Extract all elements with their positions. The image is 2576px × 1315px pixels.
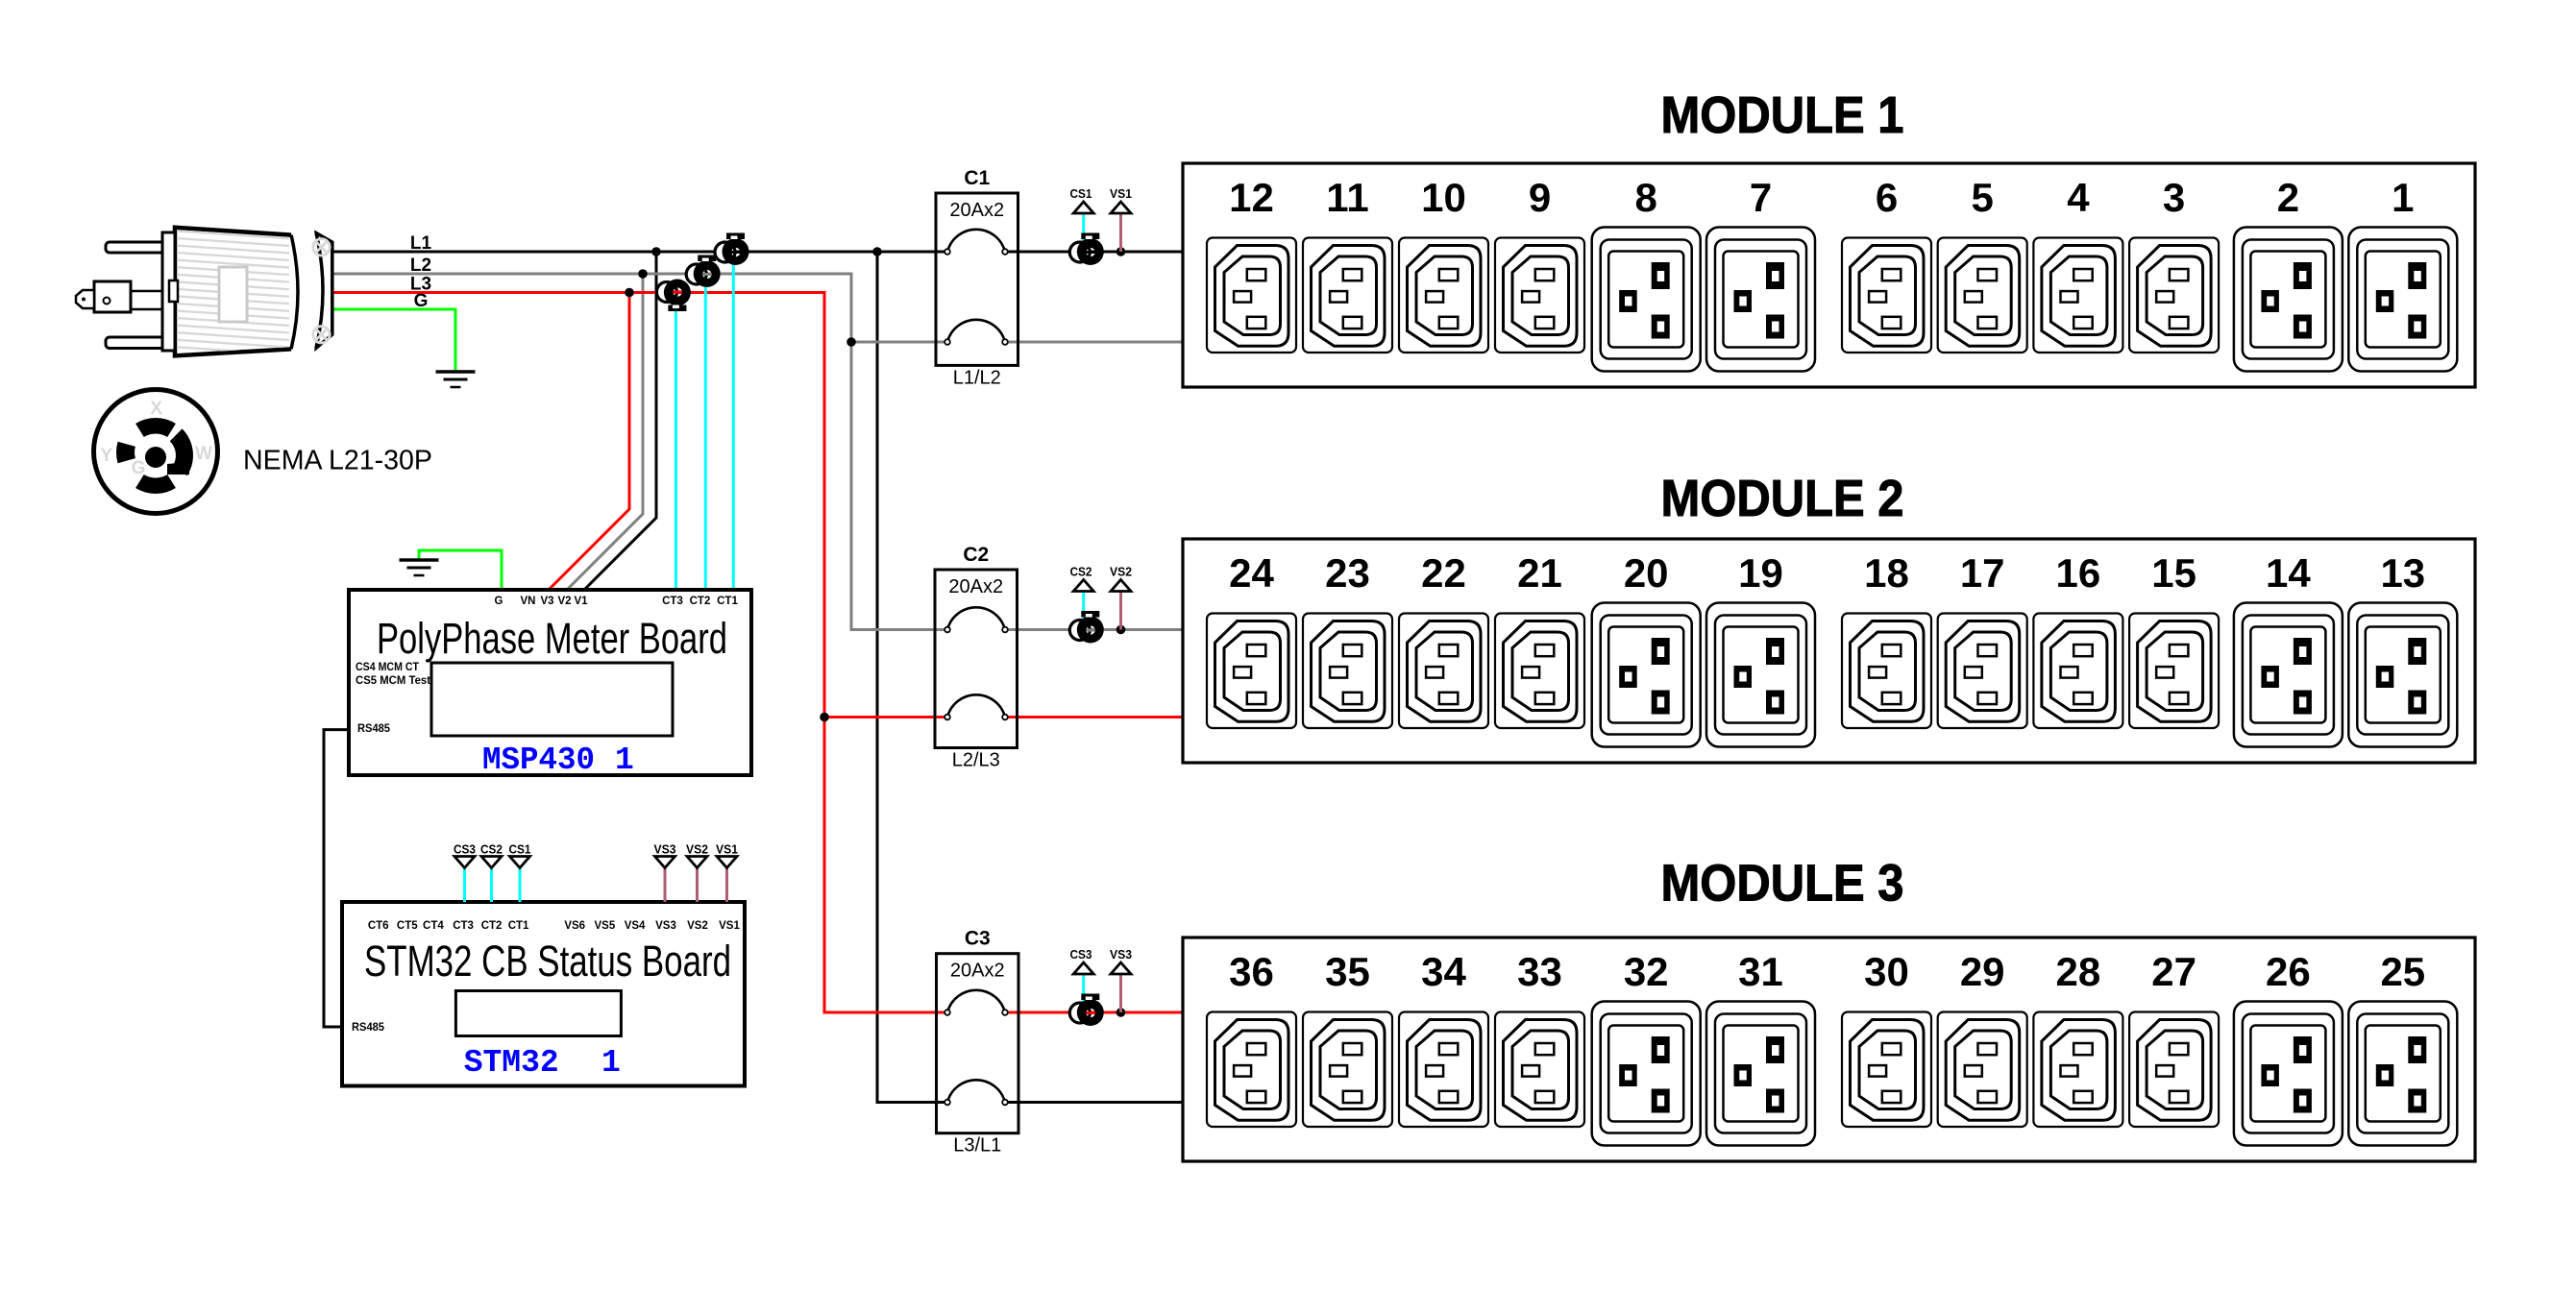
connector triangle VS3 <box>655 857 675 868</box>
svg-text:RS485: RS485 <box>352 1022 385 1034</box>
svg-text:X: X <box>150 399 162 419</box>
svg-text:MODULE 2: MODULE 2 <box>1661 470 1904 527</box>
wire junction at 886,356 <box>846 337 856 347</box>
outlet 8 (IEC C19) <box>1592 228 1701 372</box>
outlet 28 (IEC C13) <box>2033 1012 2122 1128</box>
plug body <box>175 228 291 356</box>
CT on L2 (CT2) <box>686 256 721 288</box>
svg-text:CT5: CT5 <box>397 920 418 932</box>
svg-text:35: 35 <box>1325 949 1370 994</box>
connector triangle CS3 <box>1073 962 1093 974</box>
outlet 25 (IEC C19) <box>2348 1002 2457 1146</box>
svg-text:VS1: VS1 <box>716 843 738 857</box>
svg-text:VN: VN <box>521 596 536 607</box>
wire gray branch to C1 bottom <box>851 341 946 344</box>
svg-text:CS2: CS2 <box>1070 566 1092 579</box>
svg-text:CT3: CT3 <box>662 596 683 607</box>
STM32 pin labels <box>368 920 741 932</box>
svg-text:36: 36 <box>1229 949 1274 994</box>
outlet 17 (IEC C13) <box>1938 614 2027 729</box>
ground symbol near plug <box>436 372 476 387</box>
plug cord cap <box>316 233 332 349</box>
svg-text:L2/L3: L2/L3 <box>952 750 1000 771</box>
svg-text:4: 4 <box>2067 175 2090 220</box>
wire maroon stub VS3 <box>1119 974 1122 1012</box>
outlet 23 (IEC C13) <box>1303 614 1392 729</box>
outlet 1 (IEC C19) <box>2348 228 2457 372</box>
svg-text:L3/L1: L3/L1 <box>953 1135 1001 1157</box>
module 3 enclosure box <box>1183 938 2475 1161</box>
svg-text:V2: V2 <box>557 596 571 607</box>
PolyPhase Meter Board box <box>349 590 751 775</box>
svg-text:VS3: VS3 <box>1110 948 1132 962</box>
connector triangle CS1 <box>510 857 530 868</box>
connector triangle VS1 <box>1111 202 1131 213</box>
meter board pin labels <box>495 596 739 607</box>
plug collar <box>162 232 175 351</box>
wire red branch to C2 bottom <box>824 716 946 718</box>
connector triangle CS1 <box>1073 202 1093 213</box>
wire stub CS2 <box>490 868 493 903</box>
outlet 18 (IEC C13) <box>1842 614 1931 729</box>
outlet 15 (IEC C13) <box>2129 614 2219 729</box>
NEMA L21-30P plug bottom prong <box>106 337 164 349</box>
svg-text:31: 31 <box>1738 949 1783 994</box>
svg-text:PolyPhase Meter Board: PolyPhase Meter Board <box>377 614 727 663</box>
svg-text:32: 32 <box>1624 949 1669 994</box>
svg-text:22: 22 <box>1421 550 1466 596</box>
svg-text:W: W <box>195 444 212 464</box>
svg-text:19: 19 <box>1738 550 1783 596</box>
connector triangle VS2 <box>687 857 707 868</box>
svg-text:20Ax2: 20Ax2 <box>949 200 1004 221</box>
svg-text:CS4 MCM CT: CS4 MCM CT <box>356 662 419 673</box>
wire junction at 655,304.5 <box>625 288 634 298</box>
outlet 4 (IEC C13) <box>2033 238 2122 353</box>
wire cyan CT2 to meter board <box>704 274 707 590</box>
svg-text:34: 34 <box>1421 949 1466 994</box>
svg-text:VS2: VS2 <box>1110 566 1132 579</box>
wire maroon stub VS2 <box>1119 592 1122 630</box>
CT on L1 (CT1) <box>715 233 749 266</box>
svg-text:CT4: CT4 <box>423 920 444 932</box>
meter board display window <box>431 663 673 736</box>
svg-text:28: 28 <box>2056 949 2101 994</box>
svg-text:CS5 MCM Test: CS5 MCM Test <box>356 675 430 687</box>
svg-text:L2: L2 <box>410 256 431 276</box>
svg-text:MODULE 3: MODULE 3 <box>1661 855 1904 913</box>
svg-text:V3: V3 <box>540 596 553 607</box>
svg-text:1: 1 <box>615 743 634 778</box>
wire gray from C2 to module 2 top <box>1006 628 1183 631</box>
outlet 20 (IEC C19) <box>1592 603 1701 747</box>
svg-text:CS1: CS1 <box>509 843 531 857</box>
outlet 30 (IEC C13) <box>1842 1012 1931 1128</box>
svg-text:CT2: CT2 <box>481 920 503 932</box>
wire black branch to meter board V1 <box>584 252 656 590</box>
outlet 2 (IEC C19) <box>2234 228 2343 372</box>
wire stub VS1 <box>725 868 728 903</box>
svg-text:8: 8 <box>1635 175 1657 220</box>
outlet 13 (IEC C19) <box>2348 603 2457 747</box>
svg-text:C3: C3 <box>965 928 991 950</box>
NEMA L21-30P plug top prong <box>106 242 164 253</box>
svg-text:VS3: VS3 <box>655 920 676 932</box>
wire L1 black from C1 to module 1 <box>1006 251 1183 254</box>
svg-text:VS3: VS3 <box>654 843 676 857</box>
svg-text:VS2: VS2 <box>686 843 708 857</box>
svg-text:20Ax2: 20Ax2 <box>950 961 1005 982</box>
svg-text:VS1: VS1 <box>719 920 740 932</box>
connector triangle VS3 <box>1111 962 1131 974</box>
ground symbol near meter board <box>400 560 439 575</box>
circuit breaker C2 (L2/L3) <box>935 544 1018 771</box>
outlet 34 (IEC C13) <box>1399 1012 1488 1128</box>
svg-text:20Ax2: 20Ax2 <box>948 576 1003 597</box>
outlet 9 (IEC C13) <box>1495 238 1584 353</box>
wire junction at 683,262 <box>651 247 661 256</box>
svg-text:L1/L2: L1/L2 <box>953 367 1001 388</box>
wire L3 red from plug <box>332 293 946 1013</box>
svg-text:16: 16 <box>2056 550 2101 596</box>
svg-text:STM32: STM32 <box>464 1045 559 1081</box>
wire cyan CT3 to meter board <box>675 293 677 591</box>
svg-text:MSP430: MSP430 <box>482 743 595 778</box>
svg-text:CT1: CT1 <box>508 920 529 932</box>
svg-text:VS1: VS1 <box>1110 187 1132 201</box>
svg-text:20: 20 <box>1624 550 1669 596</box>
NEMA L21-30P receptacle face symbol <box>94 390 218 514</box>
outlet 5 (IEC C13) <box>1938 238 2027 353</box>
plug screws <box>313 239 330 343</box>
connector triangle CS2 <box>481 857 502 868</box>
NEMA L21-30P plug ground pin <box>76 281 163 312</box>
connector triangle VS1 <box>717 857 737 868</box>
svg-text:CT3: CT3 <box>453 920 474 932</box>
outlet 21 (IEC C13) <box>1495 614 1584 729</box>
svg-text:VS4: VS4 <box>625 920 646 932</box>
CT sensor CS3 <box>1069 994 1104 1027</box>
STM32 CB Status Board box <box>342 902 745 1086</box>
wire junction at 1166.5,655.5 <box>1116 625 1126 635</box>
svg-text:MODULE 1: MODULE 1 <box>1661 86 1904 144</box>
CT on L3 (CT3) <box>656 280 691 312</box>
svg-text:CT2: CT2 <box>690 596 711 607</box>
svg-text:29: 29 <box>1960 949 2005 994</box>
svg-text:CT6: CT6 <box>368 920 389 932</box>
outlet 10 (IEC C13) <box>1399 238 1488 353</box>
wire stub CS1 <box>519 868 522 903</box>
outlet 22 (IEC C13) <box>1399 614 1488 729</box>
connector triangle CS2 <box>1073 580 1093 592</box>
outlet 14 (IEC C19) <box>2234 603 2343 747</box>
outlet 32 (IEC C19) <box>1592 1002 1701 1146</box>
outlet 11 (IEC C13) <box>1303 238 1392 353</box>
wire maroon stub VS1 <box>1119 213 1122 252</box>
wire junction at 669,285 <box>638 269 648 279</box>
wire G green from plug to ground <box>332 309 455 371</box>
svg-text:23: 23 <box>1325 550 1370 596</box>
svg-text:2: 2 <box>2277 175 2299 220</box>
svg-text:C2: C2 <box>963 544 989 566</box>
wire stub CS3 <box>463 868 466 903</box>
CT sensor CS1 <box>1069 233 1104 266</box>
svg-text:L1: L1 <box>410 233 432 254</box>
outlet 35 (IEC C13) <box>1303 1012 1392 1128</box>
outlet 19 (IEC C19) <box>1706 603 1815 747</box>
svg-text:30: 30 <box>1864 949 1909 994</box>
svg-text:G: G <box>132 458 146 478</box>
svg-text:24: 24 <box>1229 550 1274 596</box>
svg-text:14: 14 <box>2266 550 2311 596</box>
wire L1 black from plug to breaker C1 <box>332 251 946 254</box>
svg-text:3: 3 <box>2163 175 2185 220</box>
svg-text:CS3: CS3 <box>1070 948 1092 962</box>
svg-text:CS1: CS1 <box>1070 187 1092 201</box>
svg-text:21: 21 <box>1517 550 1562 596</box>
svg-text:G: G <box>495 596 503 607</box>
outlet 24 (IEC C13) <box>1207 614 1296 729</box>
wire stub VS3 <box>664 868 667 903</box>
wire red branch to meter board V3 <box>549 293 629 591</box>
svg-text:13: 13 <box>2380 550 2425 596</box>
svg-text:6: 6 <box>1876 175 1898 220</box>
svg-text:G: G <box>414 291 429 311</box>
svg-text:10: 10 <box>1421 175 1466 220</box>
circuit breaker C1 (L1/L2) <box>936 167 1018 388</box>
svg-text:VS6: VS6 <box>564 920 585 932</box>
svg-text:7: 7 <box>1750 175 1772 220</box>
circuit breaker C3 (L3/L1) <box>937 928 1019 1157</box>
wire junction at 1166.5,262 <box>1116 247 1126 256</box>
wire RS485 bus between boards <box>324 730 349 1027</box>
outlet 27 (IEC C13) <box>2129 1012 2219 1128</box>
outlet 3 (IEC C13) <box>2129 238 2219 353</box>
svg-text:1: 1 <box>601 1045 621 1081</box>
svg-text:CS2: CS2 <box>480 843 503 857</box>
wire green from ground to meter board G pin <box>419 550 502 590</box>
svg-text:15: 15 <box>2151 550 2196 596</box>
svg-text:Y: Y <box>100 446 112 466</box>
plug band <box>291 233 323 350</box>
wire black from C3 to module 3 bottom <box>1006 1101 1183 1104</box>
connector triangle VS2 <box>1111 580 1131 592</box>
outlet 12 (IEC C13) <box>1207 238 1296 353</box>
outlet 26 (IEC C19) <box>2234 1002 2343 1146</box>
wire red from C2 to module 2 bottom <box>1006 716 1183 718</box>
svg-text:1: 1 <box>2392 175 2414 220</box>
outlet 33 (IEC C13) <box>1495 1012 1584 1128</box>
outlet 7 (IEC C19) <box>1706 228 1815 372</box>
wire gray branch to meter board V2 <box>567 274 643 590</box>
svg-text:26: 26 <box>2266 949 2311 994</box>
svg-text:18: 18 <box>1864 550 1909 596</box>
module 2 enclosure box <box>1183 539 2475 763</box>
wire cyan stub CS1 <box>1082 213 1085 252</box>
outlet 16 (IEC C13) <box>2033 614 2122 729</box>
wire L2 gray from plug <box>332 274 946 630</box>
module 1 enclosure box <box>1183 163 2475 387</box>
connector triangle CS3 <box>454 857 475 868</box>
wire junction at 1166.5,1054 <box>1116 1008 1126 1017</box>
wire cyan CT1 to meter board <box>732 252 735 590</box>
wire cyan stub CS2 <box>1082 592 1085 630</box>
svg-text:RS485: RS485 <box>357 723 391 735</box>
wire L1 black vertical branch to breaker C3 bottom <box>877 252 946 1103</box>
outlet 31 (IEC C19) <box>1706 1002 1815 1146</box>
svg-text:VS2: VS2 <box>687 920 708 932</box>
wire gray from C1 to module 1 bottom <box>1006 341 1183 344</box>
wire red from C3 to module 3 top <box>1006 1011 1183 1014</box>
STM32 display window <box>455 991 621 1036</box>
svg-text:V1: V1 <box>574 596 588 607</box>
svg-text:33: 33 <box>1517 949 1562 994</box>
svg-text:NEMA L21-30P: NEMA L21-30P <box>243 446 432 476</box>
outlet 6 (IEC C13) <box>1842 238 1931 353</box>
svg-text:9: 9 <box>1529 175 1551 220</box>
CT sensor CS2 <box>1069 611 1104 644</box>
svg-text:CS3: CS3 <box>454 843 476 857</box>
outlet 36 (IEC C13) <box>1207 1012 1296 1128</box>
svg-text:25: 25 <box>2380 949 2425 994</box>
svg-text:CT1: CT1 <box>717 596 738 607</box>
wire stub VS2 <box>696 868 699 903</box>
svg-text:STM32 CB Status Board: STM32 CB Status Board <box>364 937 731 986</box>
svg-text:C1: C1 <box>964 167 990 189</box>
svg-text:12: 12 <box>1229 175 1274 220</box>
svg-text:17: 17 <box>1960 550 2005 596</box>
wire junction at 913,262 <box>872 247 882 256</box>
svg-text:27: 27 <box>2151 949 2196 994</box>
svg-text:VS5: VS5 <box>595 920 616 932</box>
svg-text:5: 5 <box>1972 175 1994 220</box>
outlet 29 (IEC C13) <box>1938 1012 2027 1128</box>
svg-text:11: 11 <box>1326 175 1368 220</box>
wire junction at 858,746.5 <box>820 713 829 722</box>
wire cyan stub CS3 <box>1082 974 1085 1012</box>
